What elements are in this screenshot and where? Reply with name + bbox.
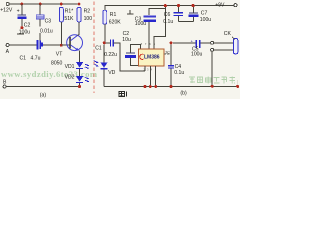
svg-text:(a): (a) (40, 93, 47, 99)
resistor R2 100 (77, 7, 92, 35)
svg-text:51K: 51K (64, 16, 74, 22)
wire to speaker top (214, 42, 234, 44)
wire IC pin4 stub (155, 66, 157, 87)
node rail C7 (192, 4, 195, 7)
node rail-R2 (78, 3, 81, 6)
svg-text:+9V: +9V (215, 3, 225, 9)
capacitor C3 100u (135, 9, 166, 49)
svg-text:R1*: R1* (65, 9, 74, 15)
svg-text:LM386: LM386 (144, 55, 160, 61)
LED VD2 (65, 75, 90, 84)
terminal +9V (215, 3, 237, 9)
svg-text:R1: R1 (110, 12, 117, 18)
svg-text:R2: R2 (84, 9, 91, 15)
svg-text:C6: C6 (164, 12, 171, 18)
speaker CK (224, 31, 238, 87)
separator dashed line (93, 2, 95, 94)
photodiode VD (94, 44, 116, 86)
capacitor C7 100u (188, 6, 211, 24)
svg-text:VD: VD (108, 70, 115, 76)
node gnd pin2 (149, 85, 152, 88)
node rail V+ (164, 4, 167, 7)
svg-text:www.sydzdiy.6to23.com: www.sydzdiy.6to23.com (1, 69, 98, 79)
capacitor C5 100u (173, 38, 211, 57)
wire output pin5 (164, 43, 171, 65)
wire input A (9, 44, 36, 46)
node gnd jack (211, 85, 214, 88)
svg-text:C1: C1 (20, 55, 27, 61)
svg-text:100u: 100u (191, 52, 202, 58)
svg-text:C3: C3 (45, 18, 52, 24)
svg-text:10u: 10u (122, 37, 131, 43)
caption figure 1 (119, 92, 126, 97)
svg-text:0.01u: 0.01u (40, 28, 53, 34)
svg-text:100u: 100u (19, 29, 30, 35)
wire VD2 to ground rail (79, 83, 81, 86)
svg-text:4.7u: 4.7u (31, 55, 41, 61)
terminal B (3, 79, 7, 88)
terminal output top (211, 41, 214, 44)
svg-text:100u: 100u (200, 17, 211, 23)
svg-text:VD2: VD2 (65, 75, 75, 81)
svg-text:+: + (17, 9, 20, 15)
wire base (61, 44, 69, 46)
LED VD1 (65, 62, 90, 70)
node gnd C4 (170, 85, 173, 88)
node gnd speaker (236, 85, 239, 88)
node rail-C3 (39, 3, 42, 6)
ground tick mark (127, 10, 134, 14)
wire IC pin2 stub (149, 66, 151, 87)
terminal +12V (0, 3, 13, 14)
svg-text:620K: 620K (109, 20, 121, 26)
svg-text:C7: C7 (201, 11, 208, 17)
svg-text:B: B (3, 79, 7, 85)
svg-text:(b): (b) (180, 91, 187, 97)
node rail-C2 (21, 3, 24, 6)
svg-text:3C: 3C (165, 50, 170, 54)
svg-text:A: A (6, 49, 10, 55)
wire V+ pin6 (154, 6, 166, 49)
capacitor C4 0.1u (168, 64, 184, 86)
svg-text:0.1u: 0.1u (174, 70, 184, 76)
capacitor C1 0.22u (95, 40, 145, 71)
resistor R1 620K (103, 10, 121, 41)
svg-text:VT: VT (56, 52, 63, 58)
capacitor C2 100u (17, 4, 31, 35)
terminal A (6, 44, 10, 55)
node rail-R1 (60, 3, 63, 6)
node base junction (60, 44, 63, 47)
svg-text:C1: C1 (95, 46, 102, 52)
wire +9V rail (105, 6, 234, 11)
node input junction (103, 41, 106, 44)
wire emitter to VD1 (79, 50, 81, 62)
svg-text:100u: 100u (135, 21, 146, 27)
watermark chinese (shi yong dian zi zhi zuo) (189, 77, 235, 84)
wire ground rail (a) (6, 86, 79, 88)
node output corner (170, 41, 173, 44)
svg-text:8050: 8050 (51, 60, 62, 66)
transistor VT 8050 (51, 35, 83, 67)
wire to speaker bottom (214, 49, 234, 51)
svg-text:100: 100 (84, 16, 93, 22)
op-amp U1 LM386 (138, 42, 163, 71)
terminal output bottom (211, 48, 214, 51)
capacitor C1 4.7u (20, 40, 62, 62)
wire ground rail (b) (104, 86, 238, 88)
node gnd pin3 (144, 85, 147, 88)
capacitor C2 10u (122, 31, 140, 65)
svg-text:+12V: +12V (0, 7, 13, 13)
svg-text:C2: C2 (24, 22, 31, 28)
node rail end (a) (78, 85, 81, 88)
background texture (0, 0, 240, 99)
svg-text:CK: CK (224, 31, 232, 37)
capacitor C3 0.01u (36, 4, 56, 45)
wire terminal to ground (211, 51, 213, 86)
watermark www.sydzdiy.6to23.com (1, 69, 98, 79)
capacitor C6 0.1u (163, 6, 193, 25)
wire IC pin3 stub (144, 66, 146, 71)
svg-text:VD1: VD1 (65, 64, 75, 70)
wire VD1-VD2 (79, 69, 81, 76)
wire (106, 42, 110, 44)
resistor R1* 51K (59, 7, 74, 44)
svg-text:0.22u: 0.22u (104, 52, 117, 58)
svg-text:0.1u: 0.1u (163, 19, 173, 25)
node gnd pin4 (154, 85, 157, 88)
wire top rail (a) (9, 3, 80, 5)
node rail C6 (177, 4, 180, 7)
